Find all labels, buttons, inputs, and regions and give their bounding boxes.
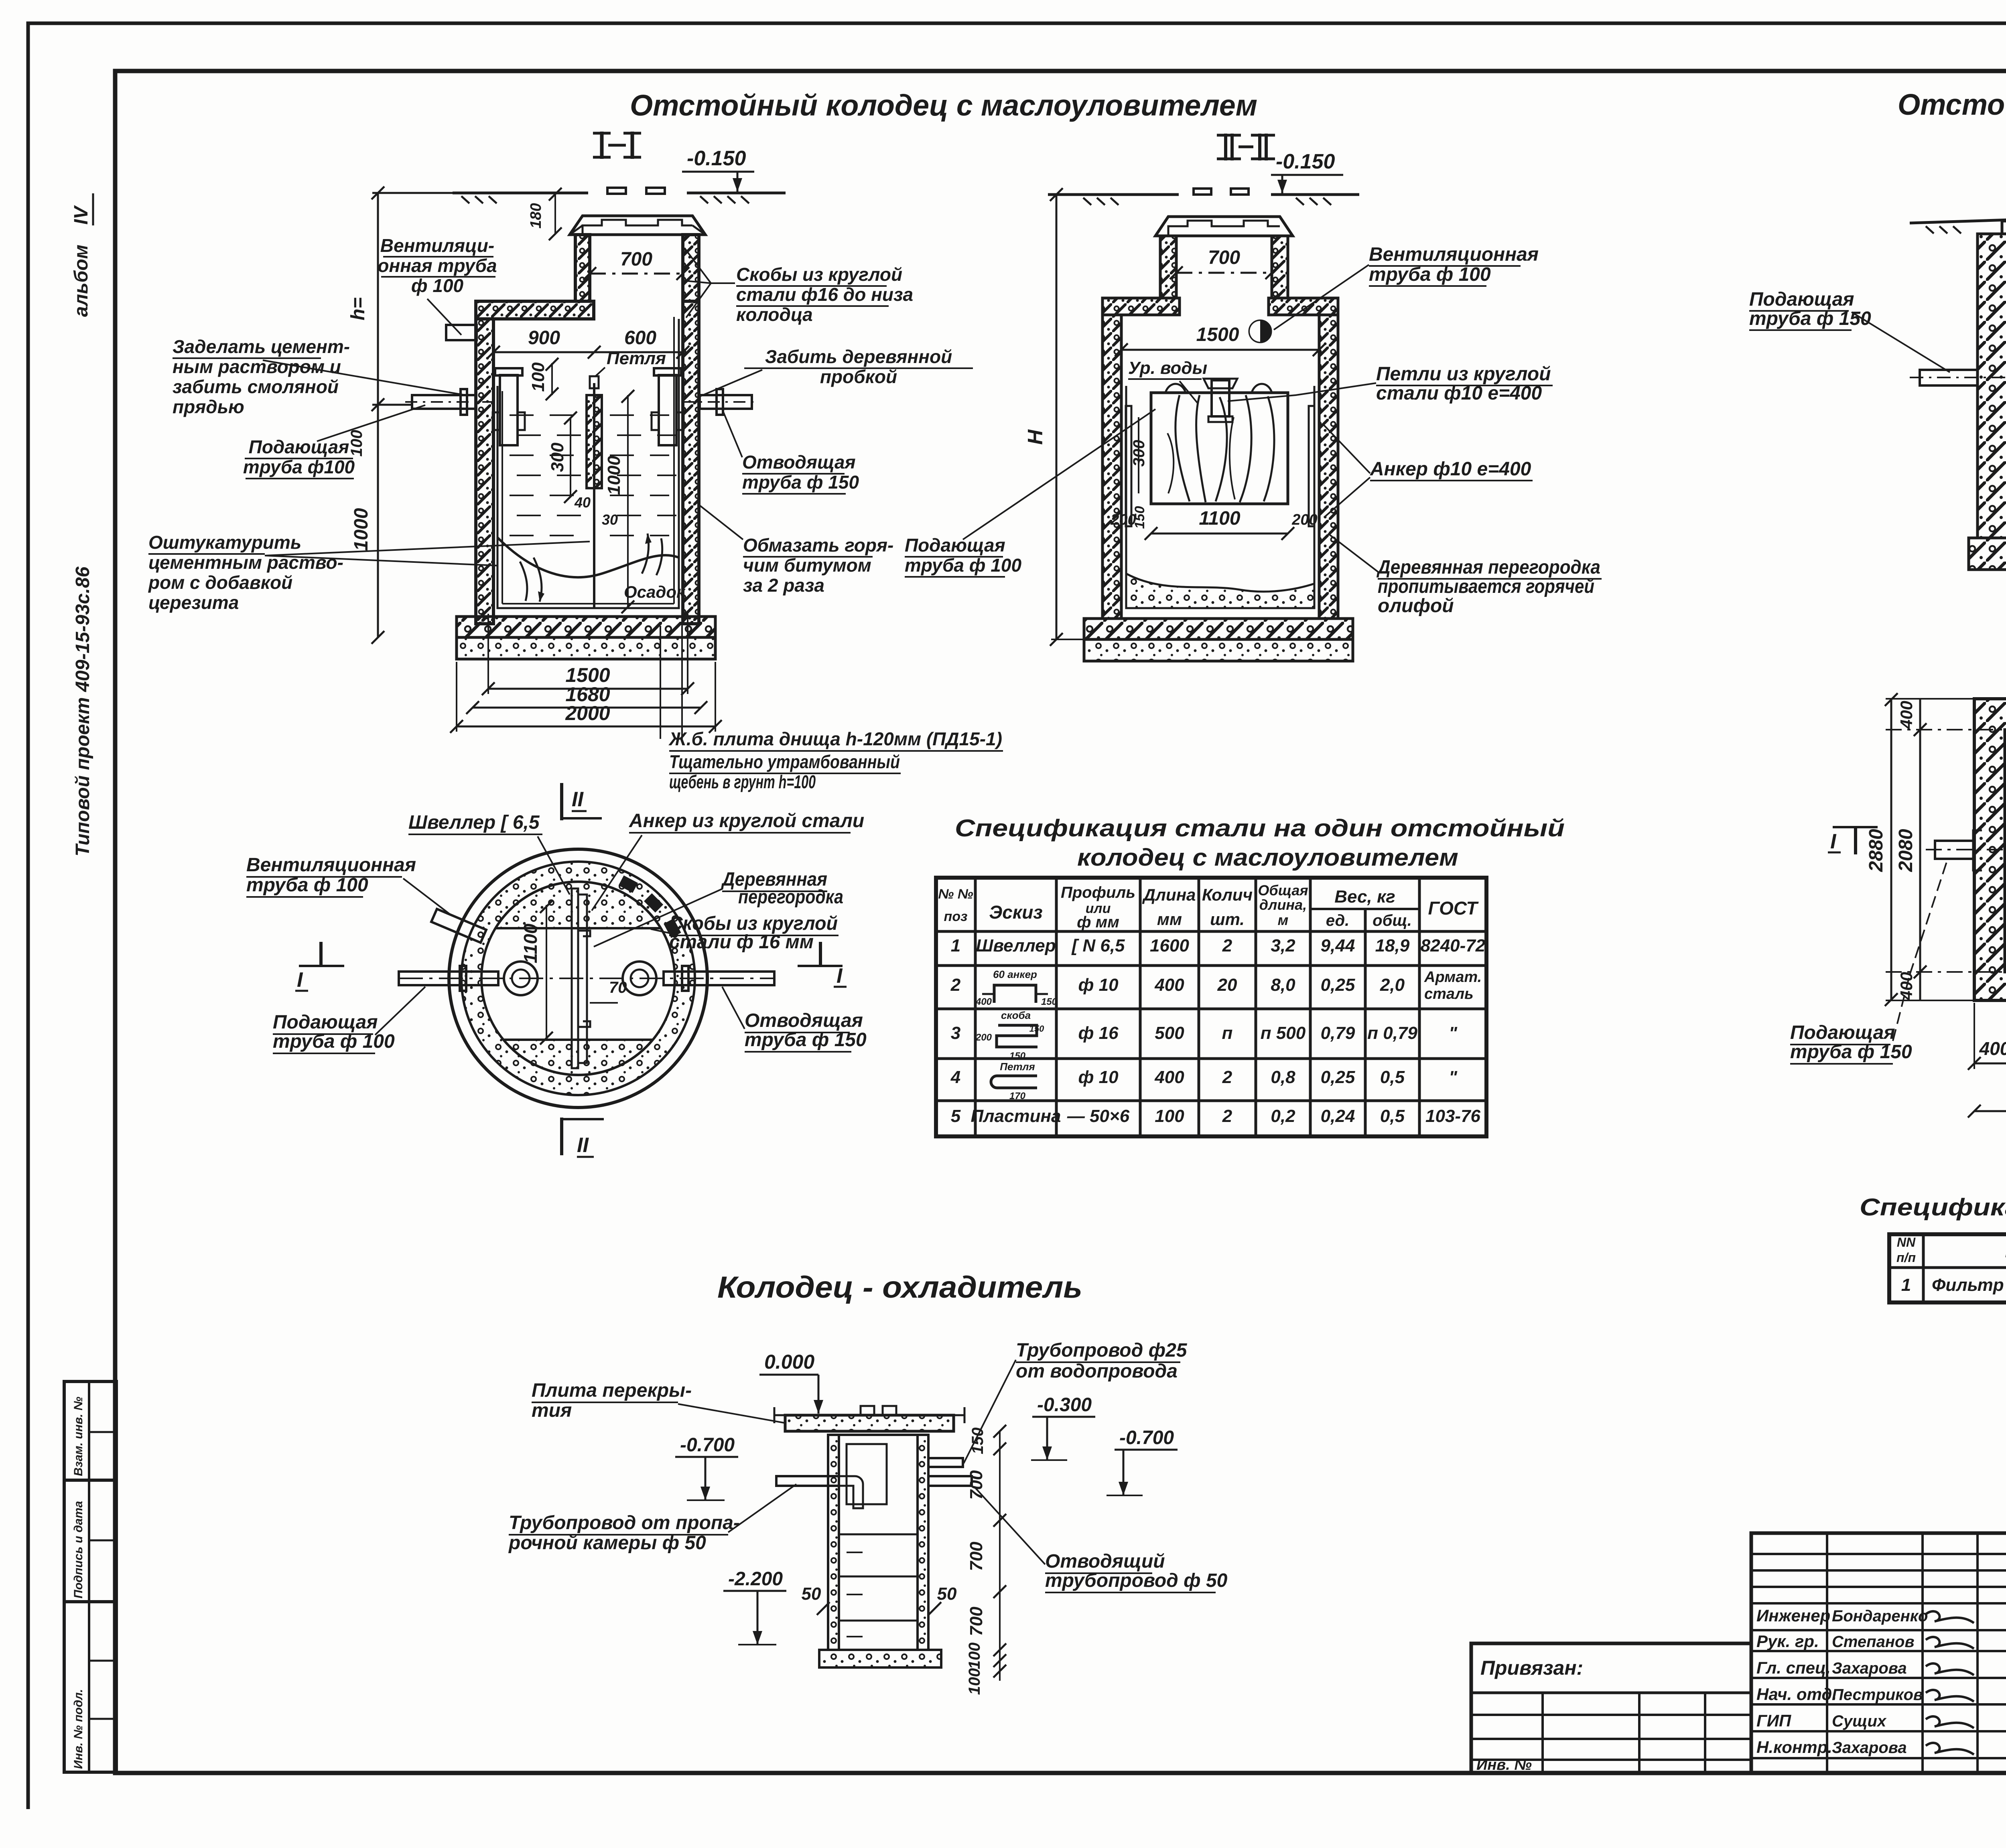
supply pipe left (drawing 3) xyxy=(1920,370,1978,385)
center lines (plan 1) xyxy=(399,978,774,979)
gravel dotted (drawing 2) xyxy=(1084,639,1353,661)
svg-text:100: 100 xyxy=(348,430,365,457)
vent pipe diagonal (plan 1) xyxy=(431,909,486,943)
flow arrow left chamber (drawing 1) xyxy=(534,558,542,602)
svg-text:ф 10: ф 10 xyxy=(1078,1067,1119,1087)
bottom dim 1500 (drawing 1) xyxy=(488,688,688,690)
svg-text:ф 16: ф 16 xyxy=(1078,1023,1119,1043)
svg-text:8240-72: 8240-72 xyxy=(1421,936,1486,955)
svg-text:0,25: 0,25 xyxy=(1321,975,1355,995)
svg-text:Вес, кг: Вес, кг xyxy=(1334,887,1395,907)
right elbow circles (plan 1) xyxy=(623,962,656,995)
svg-text:400: 400 xyxy=(1979,1038,2006,1059)
svg-text:Вентиляци-: Вентиляци- xyxy=(380,235,494,256)
svg-text:103-76: 103-76 xyxy=(1425,1106,1481,1126)
svg-text:тия: тия xyxy=(532,1400,572,1421)
svg-text:шт.: шт. xyxy=(1210,910,1245,929)
svg-text:5: 5 xyxy=(951,1106,961,1126)
svg-text:Армат.: Армат. xyxy=(1424,969,1482,986)
ground line (drawing 1) xyxy=(453,192,588,195)
svg-text:Анкер ф10 е=400: Анкер ф10 е=400 xyxy=(1370,458,1531,480)
svg-text:скоба: скоба xyxy=(1001,1009,1031,1021)
svg-text:ГОСТ: ГОСТ xyxy=(1428,898,1479,919)
sludge line Osadok (drawing 1) xyxy=(497,538,679,577)
svg-text:Н: Н xyxy=(1024,429,1047,445)
svg-text:труба ф 150: труба ф 150 xyxy=(1749,308,1871,329)
svg-text:1: 1 xyxy=(951,936,960,955)
svg-text:труба ф 150: труба ф 150 xyxy=(1790,1041,1912,1063)
section mark II bottom (plan 1) xyxy=(560,1118,563,1155)
channel marks on partition (plan 1) xyxy=(578,931,590,936)
svg-text:Длина: Длина xyxy=(1142,885,1196,904)
svg-text:20: 20 xyxy=(1217,975,1237,995)
svg-text:150: 150 xyxy=(1029,1024,1044,1034)
svg-text:Фильтр стекловолокнистый: Фильтр стекловолокнистый xyxy=(1932,1275,2006,1295)
svg-text:700: 700 xyxy=(1208,247,1240,268)
sketch row4 petlya xyxy=(991,1076,1037,1088)
svg-text:Гл. спец.: Гл. спец. xyxy=(1756,1658,1831,1677)
svg-text:ным раствором и: ным раствором и xyxy=(173,356,341,377)
svg-text:прядью: прядью xyxy=(173,396,244,417)
svg-text:труба ф 100: труба ф 100 xyxy=(246,874,368,896)
svg-text:Инв. №: Инв. № xyxy=(1476,1757,1532,1773)
svg-text:I: I xyxy=(837,964,843,988)
svg-text:2: 2 xyxy=(1222,1067,1232,1087)
svg-text:Заделать цемент-: Заделать цемент- xyxy=(173,336,350,357)
outlet pipe right with flange (drawing 1) xyxy=(700,395,752,409)
svg-text:труба ф 100: труба ф 100 xyxy=(1369,264,1491,285)
svg-text:Тщательно утрамбованный: Тщательно утрамбованный xyxy=(669,751,900,772)
footing slab hatched (drawing 1) xyxy=(457,617,715,637)
svg-text:щебень в грунт h=100: щебень в грунт h=100 xyxy=(669,771,816,792)
left height dim line (drawing 1) xyxy=(377,193,379,637)
dim 700 in neck (drawing 1) xyxy=(590,273,683,275)
svg-text:150: 150 xyxy=(969,1428,987,1454)
svg-text:0,5: 0,5 xyxy=(1380,1106,1405,1126)
svg-text:Подающая: Подающая xyxy=(905,535,1005,556)
svg-text:150: 150 xyxy=(1009,1051,1026,1061)
svg-text:-0.300: -0.300 xyxy=(1037,1394,1092,1416)
title block: attachment table left xyxy=(1471,1643,1751,1773)
svg-text:2: 2 xyxy=(1222,1106,1232,1126)
svg-text:ф мм: ф мм xyxy=(1077,913,1119,931)
svg-text:пробкой: пробкой xyxy=(820,366,897,387)
svg-text:30: 30 xyxy=(602,511,618,528)
svg-text:п 500: п 500 xyxy=(1261,1023,1306,1043)
materials table grid xyxy=(1889,1234,2006,1302)
water level dashes (drawing 1) xyxy=(510,414,534,416)
ground line (drawing 2) xyxy=(1048,193,1179,196)
svg-text:п 0,79: п 0,79 xyxy=(1367,1023,1417,1043)
svg-text:100: 100 xyxy=(528,362,548,392)
section mark I left (plan 1) xyxy=(299,965,344,967)
inner liner lines (drawing 2) xyxy=(1126,386,1314,608)
body left wall (drawing 1) xyxy=(476,319,493,624)
svg-text:Швеллер: Швеллер xyxy=(976,936,1056,955)
svg-text:Бондаренко: Бондаренко xyxy=(1832,1607,1928,1625)
svg-text:чим битумом: чим битумом xyxy=(743,555,871,576)
footing hatched (drawing 2) xyxy=(1084,619,1353,639)
svg-text:-0.700: -0.700 xyxy=(680,1434,735,1456)
svg-text:600: 600 xyxy=(624,327,656,349)
internal tee on supply pipe (drawing 1) xyxy=(500,375,518,445)
svg-text:100: 100 xyxy=(1155,1106,1184,1126)
svg-text:700: 700 xyxy=(620,249,652,270)
left dim H (drawing 2) xyxy=(1056,195,1058,639)
svg-text:0,25: 0,25 xyxy=(1321,1067,1355,1087)
well walls (cooler) xyxy=(828,1435,839,1650)
svg-text:1600: 1600 xyxy=(1150,936,1189,955)
svg-text:церезита: церезита xyxy=(148,592,239,613)
svg-text:0,24: 0,24 xyxy=(1321,1106,1355,1126)
svg-text:альбом: альбом xyxy=(71,245,92,317)
bottom dim chain (plan 2) xyxy=(1974,1063,2006,1065)
svg-text:": " xyxy=(1449,1023,1458,1043)
svg-text:труба ф 100: труба ф 100 xyxy=(905,555,1021,576)
svg-text:мм: мм xyxy=(1157,910,1182,929)
svg-text:Отстойный колодец с фильтро: Отстойный колодец с фильтром xyxy=(1898,88,2006,121)
margin box column xyxy=(64,1381,116,1772)
flow arrow right chamber (drawing 1) xyxy=(642,534,649,574)
svg-text:Обмазать горя-: Обмазать горя- xyxy=(743,535,893,556)
anchors vertical bars (drawing 2) xyxy=(1126,406,1131,526)
svg-text:Подающая: Подающая xyxy=(1790,1022,1895,1043)
dim 2080 400 400 rotated (plan 2) xyxy=(1919,699,1921,1000)
inner chamber box (cooler) xyxy=(847,1444,887,1504)
right lower pipe (cooler) xyxy=(928,1476,972,1486)
svg-text:1500: 1500 xyxy=(1196,324,1239,345)
svg-text:I: I xyxy=(1830,830,1837,853)
svg-text:Захарова: Захарова xyxy=(1832,1659,1907,1677)
plan outer circle (plan 1) xyxy=(449,849,707,1108)
partition strip (plan 1) xyxy=(572,889,578,1068)
skoba blocks upper right (plan 1) xyxy=(619,875,638,893)
svg-text:2880: 2880 xyxy=(1866,829,1887,872)
svg-text:0,5: 0,5 xyxy=(1380,1067,1405,1087)
svg-text:1100: 1100 xyxy=(1199,508,1241,529)
svg-text:1100: 1100 xyxy=(520,923,541,963)
shoulder slabs (drawing 2) xyxy=(1102,298,1180,315)
svg-text:колодца: колодца xyxy=(736,304,813,325)
dim 3300 (plan 2) xyxy=(1974,1110,2006,1112)
lifting loops on cover (drawing 2) xyxy=(1194,189,1211,195)
svg-text:Пластина: Пластина xyxy=(971,1106,1061,1126)
svg-text:онная труба: онная труба xyxy=(378,255,497,276)
svg-text:Степанов: Степанов xyxy=(1832,1633,1915,1651)
svg-text:трубопровод ф 50: трубопровод ф 50 xyxy=(1045,1570,1228,1591)
svg-text:-0.150: -0.150 xyxy=(687,147,746,170)
svg-text:Колич: Колич xyxy=(1202,885,1253,904)
svg-text:400: 400 xyxy=(1897,701,1916,729)
svg-text:Петля: Петля xyxy=(1000,1061,1035,1073)
dim 1100 with side 200s (drawing 2) xyxy=(1151,533,1288,535)
svg-text:Осадок: Осадок xyxy=(624,582,686,601)
plan wall ring hatched (plan 2) xyxy=(1974,699,2006,1000)
sketch row3 skoba xyxy=(997,1025,1038,1047)
svg-text:Рук. гр.: Рук. гр. xyxy=(1756,1632,1819,1651)
svg-text:Отводящая: Отводящая xyxy=(742,452,856,473)
shoulder slab (drawing 1) xyxy=(476,301,594,319)
svg-text:0,79: 0,79 xyxy=(1321,1023,1355,1043)
svg-text:Ж.б. плита днища h-120мм (ПД15: Ж.б. плита днища h-120мм (ПД15-1) xyxy=(668,728,1002,749)
cover slab trapezoid (drawing 1) xyxy=(570,216,705,235)
svg-text:ром с добавкой: ром с добавкой xyxy=(148,572,292,593)
svg-text:Захарова: Захарова xyxy=(1832,1739,1907,1757)
svg-text:Подающая: Подающая xyxy=(273,1012,378,1033)
svg-text:Н.контр.: Н.контр. xyxy=(1756,1738,1832,1757)
wooden partition face with grain (drawing 2) xyxy=(1151,393,1288,504)
svg-text:150: 150 xyxy=(1041,996,1058,1007)
left wall (drawing 3) xyxy=(1978,234,2006,538)
ground line (drawing 3) xyxy=(1910,220,2006,223)
plan ring circle (plan 1) xyxy=(461,862,695,1095)
channel beam chord bottom (plan 1) xyxy=(504,1039,653,1041)
svg-text:Отводящий: Отводящий xyxy=(1045,1551,1165,1572)
svg-text:Анкер из круглой стали: Анкер из круглой стали xyxy=(629,810,864,832)
svg-text:70: 70 xyxy=(609,979,627,996)
svg-text:ф 100: ф 100 xyxy=(411,275,464,296)
inner plaster lines (drawing 1) xyxy=(497,319,679,608)
sediment dotted (drawing 2) xyxy=(1126,574,1314,608)
svg-text:Сущих: Сущих xyxy=(1832,1712,1887,1730)
svg-text:труба ф 150: труба ф 150 xyxy=(742,472,859,493)
svg-text:400: 400 xyxy=(1154,975,1184,995)
svg-text:труба ф100: труба ф100 xyxy=(243,456,355,477)
svg-text:700: 700 xyxy=(966,1607,986,1636)
svg-text:": " xyxy=(1449,1067,1458,1087)
lifting loops on cover (drawing 1) xyxy=(607,188,626,194)
right pipe in plan (plan 1) xyxy=(664,972,774,985)
svg-text:2: 2 xyxy=(950,975,961,995)
svg-text:-0.150: -0.150 xyxy=(1276,150,1335,173)
supply pipe left with flange (drawing 1) xyxy=(412,395,476,409)
svg-text:Нач. отд.: Нач. отд. xyxy=(1756,1685,1837,1704)
svg-text:Трубопровод от пропа-: Трубопровод от пропа- xyxy=(509,1512,740,1534)
svg-text:170: 170 xyxy=(1009,1091,1026,1101)
steel spec table grid xyxy=(936,878,1486,1136)
svg-text:1000: 1000 xyxy=(351,508,372,551)
svg-text:длина,: длина, xyxy=(1259,897,1307,913)
svg-text:от водопровода: от водопровода xyxy=(1016,1361,1178,1382)
sketch row2 skoba xyxy=(994,985,1036,1003)
plan square outer (plan 2) xyxy=(1974,699,2006,1000)
svg-text:900: 900 xyxy=(528,327,560,349)
svg-text:№ №: № № xyxy=(938,886,973,902)
svg-text:забить смоляной: забить смоляной xyxy=(173,376,339,397)
dim 2880 rotated (plan 2) xyxy=(1890,699,1892,1000)
svg-text:Привязан:: Привязан: xyxy=(1480,1657,1583,1679)
right top pipe d25 (cooler) xyxy=(928,1458,963,1467)
svg-text:IV: IV xyxy=(71,205,92,225)
loop hook petlya (drawing 1) xyxy=(590,376,599,388)
svg-text:100: 100 xyxy=(966,1643,983,1669)
svg-text:18,9: 18,9 xyxy=(1375,936,1410,955)
svg-text:0,2: 0,2 xyxy=(1271,1106,1295,1126)
internal tee on outlet pipe (drawing 1) xyxy=(659,375,676,445)
section mark II top (plan 1) xyxy=(560,783,563,820)
svg-text:за 2 раза: за 2 раза xyxy=(743,575,824,596)
svg-text:200: 200 xyxy=(1291,511,1317,528)
svg-text:Отстойный колодец с маслоул: Отстойный колодец с маслоуловителем xyxy=(630,89,1257,122)
svg-text:олифой: олифой xyxy=(1378,595,1454,617)
svg-text:4: 4 xyxy=(950,1067,960,1087)
svg-text:сталь: сталь xyxy=(1424,986,1474,1002)
section mark I left (plan 2) xyxy=(1833,826,1878,828)
neck right wall (drawing 1) xyxy=(683,235,699,301)
svg-text:колодец с маслоуловителем: колодец с маслоуловителем xyxy=(1077,844,1458,871)
channel beam chord top (plan 1) xyxy=(495,927,661,929)
svg-text:9,44: 9,44 xyxy=(1321,936,1355,955)
svg-text:700: 700 xyxy=(966,1470,986,1500)
svg-text:Деревянная перегородка: Деревянная перегородка xyxy=(1376,557,1600,578)
loops on top of partition (drawing 2) xyxy=(1165,384,1186,392)
funnel pipe on partition (drawing 2) xyxy=(1212,380,1229,416)
svg-text:м: м xyxy=(1278,912,1289,928)
dim 1500 (drawing 2) xyxy=(1121,349,1319,351)
svg-text:стали ф 16 мм: стали ф 16 мм xyxy=(669,931,814,953)
svg-text:0,8: 0,8 xyxy=(1271,1067,1295,1087)
svg-text:сталu ф16 до низа: сталu ф16 до низа xyxy=(736,284,913,305)
svg-text:1000: 1000 xyxy=(604,456,624,495)
svg-text:200: 200 xyxy=(975,1032,992,1043)
footing (cooler) xyxy=(819,1650,941,1667)
svg-text:Профиль: Профиль xyxy=(1061,884,1135,901)
svg-text:1: 1 xyxy=(1901,1275,1911,1295)
svg-text:180: 180 xyxy=(528,203,544,228)
svg-text:h=: h= xyxy=(347,297,369,320)
bottom dim 2000 (drawing 1) xyxy=(457,726,715,728)
right dim chain (cooler) xyxy=(999,1431,1001,1681)
svg-text:пропитывается горячей: пропитывается горячей xyxy=(1378,576,1594,597)
svg-text:п/п: п/п xyxy=(1896,1250,1916,1265)
svg-text:8,0: 8,0 xyxy=(1271,975,1295,995)
svg-text:Оштукатурить: Оштукатурить xyxy=(148,532,301,553)
svg-text:2: 2 xyxy=(1222,936,1232,955)
svg-text:300: 300 xyxy=(548,442,567,472)
svg-text:стали ф10 е=400: стали ф10 е=400 xyxy=(1376,383,1542,404)
svg-text:Петли из круглой: Петли из круглой xyxy=(1376,363,1551,385)
svg-text:ГИП: ГИП xyxy=(1756,1711,1791,1730)
svg-text:— 50×6: — 50×6 xyxy=(1067,1106,1130,1126)
footing (drawing 3) xyxy=(1969,538,2006,570)
dim 700 neck (drawing 2) xyxy=(1176,272,1272,274)
svg-text:ед.: ед. xyxy=(1326,912,1350,929)
svg-text:3: 3 xyxy=(951,1023,960,1043)
svg-text:200: 200 xyxy=(1110,511,1136,528)
svg-text:Колодец - охладитель: Колодец - охладитель xyxy=(717,1270,1082,1304)
gravel layer dotted (drawing 1) xyxy=(457,637,715,659)
svg-text:Отводящая: Отводящая xyxy=(745,1010,863,1031)
inner horizontal lines (cooler) xyxy=(839,1534,918,1536)
svg-text:500: 500 xyxy=(1155,1023,1184,1043)
svg-text:Плита перекры-: Плита перекры- xyxy=(532,1380,692,1401)
svg-text:3,2: 3,2 xyxy=(1271,936,1295,955)
title block: central signature column xyxy=(1751,1533,2006,1773)
neck walls (drawing 2) xyxy=(1160,236,1176,298)
svg-text:Эскиз: Эскиз xyxy=(989,902,1043,923)
neck left wall (drawing 1) xyxy=(575,235,590,301)
cover slab trapezoid (drawing 2) xyxy=(1155,217,1293,236)
svg-text:перегородка: перегородка xyxy=(738,886,843,908)
svg-text:Подпись и дата: Подпись и дата xyxy=(72,1501,85,1598)
section mark I-I (drawing 1) xyxy=(600,132,604,159)
svg-text:рочной камеры ф 50: рочной камеры ф 50 xyxy=(508,1532,706,1554)
svg-text:Взам. инв. №: Взам. инв. № xyxy=(72,1397,85,1476)
section mark II-II (drawing 2) xyxy=(1224,134,1227,160)
svg-text:0.000: 0.000 xyxy=(764,1351,814,1373)
body right wall (drawing 1) xyxy=(683,301,699,624)
svg-text:2080: 2080 xyxy=(1895,829,1917,872)
bottom dim 1680 (drawing 1) xyxy=(473,707,701,709)
svg-text:100: 100 xyxy=(966,1668,983,1695)
left pipe (plan 2) xyxy=(1935,841,1974,859)
svg-text:Вентиляционная: Вентиляционная xyxy=(1369,244,1539,265)
svg-text:NN: NN xyxy=(1897,1235,1916,1250)
svg-text:[ N 6,5: [ N 6,5 xyxy=(1071,936,1125,955)
svg-text:цементным раство-: цементным раство- xyxy=(148,552,343,573)
svg-text:50: 50 xyxy=(802,1584,821,1604)
svg-text:Типовой проект 409-15-93с.86: Типовой проект 409-15-93с.86 xyxy=(72,566,93,856)
svg-text:Подающая: Подающая xyxy=(249,436,349,457)
svg-text:700: 700 xyxy=(966,1542,986,1571)
svg-text:2000: 2000 xyxy=(565,702,610,724)
svg-text:ф 10: ф 10 xyxy=(1078,975,1119,995)
svg-text:Вентиляционная: Вентиляционная xyxy=(246,854,416,876)
svg-text:II: II xyxy=(572,788,584,811)
title block: signatures squiggles xyxy=(1926,1611,1974,1623)
svg-text:60 анкер: 60 анкер xyxy=(993,968,1037,980)
svg-text:2,0: 2,0 xyxy=(1380,975,1405,995)
cover slab (cooler) xyxy=(785,1415,954,1431)
dim 900 / 600 (drawing 1) xyxy=(493,351,683,353)
svg-text:1040: 1040 xyxy=(2002,898,2006,939)
svg-text:Петля: Петля xyxy=(607,349,666,368)
cover slab (drawing 3) xyxy=(2002,221,2006,234)
svg-text:50: 50 xyxy=(937,1584,957,1604)
left elbow circles (plan 1) xyxy=(504,962,538,995)
svg-text:Подающая: Подающая xyxy=(1749,289,1854,310)
plan wall ring hatched (plan 1) xyxy=(461,862,695,1095)
svg-text:40: 40 xyxy=(574,494,591,511)
svg-text:I: I xyxy=(297,968,303,992)
vent hole black circle (drawing 2) xyxy=(1249,321,1271,342)
svg-text:поз: поз xyxy=(944,909,968,924)
dim 1100 rotated (plan 1) xyxy=(546,905,547,1040)
svg-text:-2.200: -2.200 xyxy=(728,1568,783,1590)
svg-text:II: II xyxy=(577,1134,589,1157)
vent pipe stub (drawing 1) xyxy=(446,325,477,340)
svg-text:-0.700: -0.700 xyxy=(1119,1427,1174,1448)
svg-text:труба ф 150: труба ф 150 xyxy=(745,1029,867,1051)
svg-text:Скобы из круглой: Скобы из круглой xyxy=(736,264,902,285)
svg-text:Инженер: Инженер xyxy=(1756,1606,1830,1625)
body walls (drawing 2) xyxy=(1102,315,1121,619)
bottom dotted segment (plan 1) xyxy=(504,1040,653,1075)
svg-text:общ.: общ. xyxy=(1373,912,1412,929)
svg-text:Ур. воды: Ур. воды xyxy=(1128,358,1207,378)
svg-text:Общая: Общая xyxy=(1258,882,1308,899)
svg-text:400: 400 xyxy=(975,996,992,1007)
svg-text:Трубопровод ф25: Трубопровод ф25 xyxy=(1016,1340,1188,1361)
left pipe in plan (plan 1) xyxy=(399,972,498,985)
svg-text:Спецификация материалов (на 2: Спецификация материалов (на 2 объекта) xyxy=(1860,1194,2006,1221)
wooden partition (drawing 1) xyxy=(587,395,602,488)
left pipe with elbow (cooler) xyxy=(776,1476,839,1486)
svg-text:Спецификация стали на один: Спецификация стали на один отстойный xyxy=(955,815,1565,842)
top dotted segment (plan 1) xyxy=(495,882,661,928)
svg-text:Забить деревянной: Забить деревянной xyxy=(765,346,952,367)
svg-text:400: 400 xyxy=(1154,1067,1184,1087)
